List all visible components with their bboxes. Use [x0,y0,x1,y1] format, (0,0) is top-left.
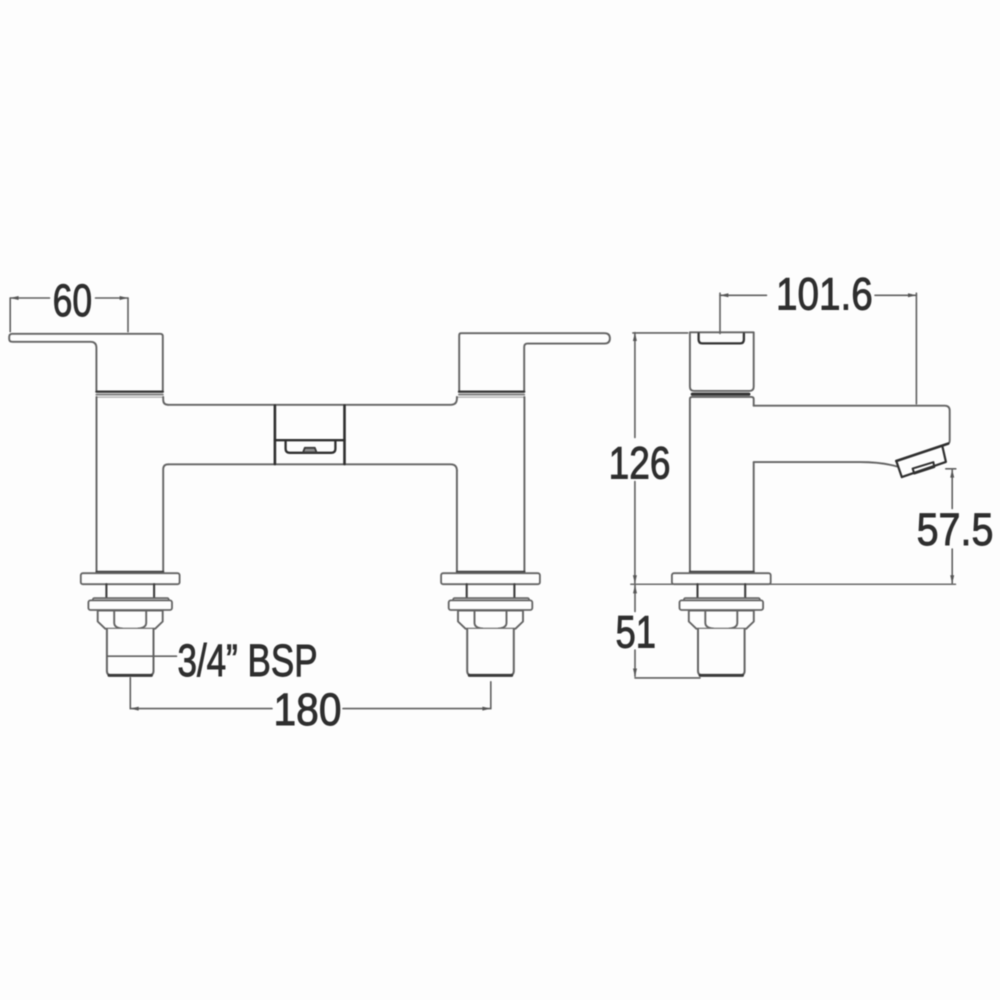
front view: right handle lever [459,333,610,390]
side leg flange [672,573,771,584]
front view: left handle lever [9,334,163,391]
dimension 57.5: top extension line [946,468,956,470]
side view: aerator window [913,462,935,473]
dimension 126: arrowheads [633,333,637,584]
front view: center aerator housing [286,441,336,453]
dimension 57.5: dimension line [951,469,953,583]
dimension 60: arrowheads [10,296,128,300]
dimension 126: top extension line [633,332,688,334]
side view: spout outline [754,406,950,467]
front view: right handle skirt lines [459,391,524,393]
right leg threaded tail [467,629,514,675]
right leg locknut washer [453,598,529,602]
dimension 126: dimension line [634,333,636,584]
left leg hex nut [98,611,163,629]
mounting surface line [631,583,956,585]
front view: left body column [97,397,169,572]
svg-text:51: 51 [616,607,657,658]
svg-text:60: 60 [53,275,92,326]
svg-text:3/4” BSP: 3/4” BSP [178,636,318,686]
legs: flange, locknut, hex nut, threaded tail (three instances) [81,573,771,675]
side leg locknut washer [684,598,760,602]
side view: aerator band [896,446,946,477]
side view: handle top cap inset [699,334,744,344]
front view: right body column [457,397,525,572]
side leg hex nut [689,611,754,629]
dimension 60: extension lines [10,298,128,332]
front view: left handle skirt lines [96,391,162,393]
svg-text:57.5: 57.5 [917,505,994,555]
dimension 101.6: dimension line [720,294,916,296]
front view: center spout block verticals [275,406,345,465]
front view: bridge waterway top and bottom edges [168,399,457,471]
side view: column bottom seat line [690,571,754,573]
side view: body column [690,332,754,391]
right leg flange [441,573,540,584]
dimension 51: dimension line [635,585,700,678]
side leg studs [698,584,746,598]
left leg locknut washer [93,598,169,602]
svg-text:101.6: 101.6 [776,269,873,319]
dimension 180: extension lines [130,678,491,709]
front view: left column bottom seat line [97,571,164,573]
dimension 51: arrowheads [633,585,637,677]
dimension 180: dimension line [130,708,491,710]
side view: spout end chamfer line [896,444,948,461]
side view: handle joint band [692,393,749,396]
right leg hex nut [458,611,523,629]
front view: center aerator inner bump [303,448,317,453]
svg-text:180: 180 [274,685,342,735]
front view: right column bottom seat line [457,571,525,573]
svg-text:126: 126 [609,438,671,488]
dimension 57.5: arrowheads [950,469,954,583]
left leg studs [106,584,154,598]
left leg flange [81,573,180,584]
dimension 60: dimension line [10,297,128,299]
leader line 3/4 BSP with thread line [107,655,177,657]
side leg threaded tail [698,629,745,675]
right leg studs [467,584,515,598]
left leg threaded tail [107,629,154,675]
dimension 101.6: extension lines [720,293,916,404]
dimension 101.6: arrowheads [720,293,916,297]
front view: center spout block inner line [275,439,345,441]
dimension 180: arrowheads [130,707,491,711]
